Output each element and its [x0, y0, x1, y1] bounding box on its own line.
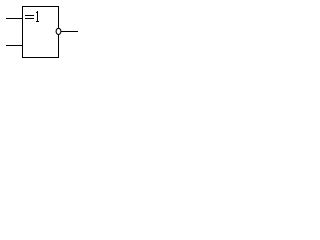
wire input A (top-left input lead)	[6, 18, 23, 19]
label "=1" (XOR function qualifier): digit 1	[36, 11, 39, 22]
label "=1" (XOR function qualifier): equals sign	[25, 15, 34, 19]
inversion bubble on output pin	[56, 28, 61, 34]
gate U1 body (IEC rectangle outline)	[23, 7, 59, 58]
wire input B (bottom-left input lead)	[6, 45, 23, 46]
wire output Y (right output lead)	[61, 31, 78, 32]
